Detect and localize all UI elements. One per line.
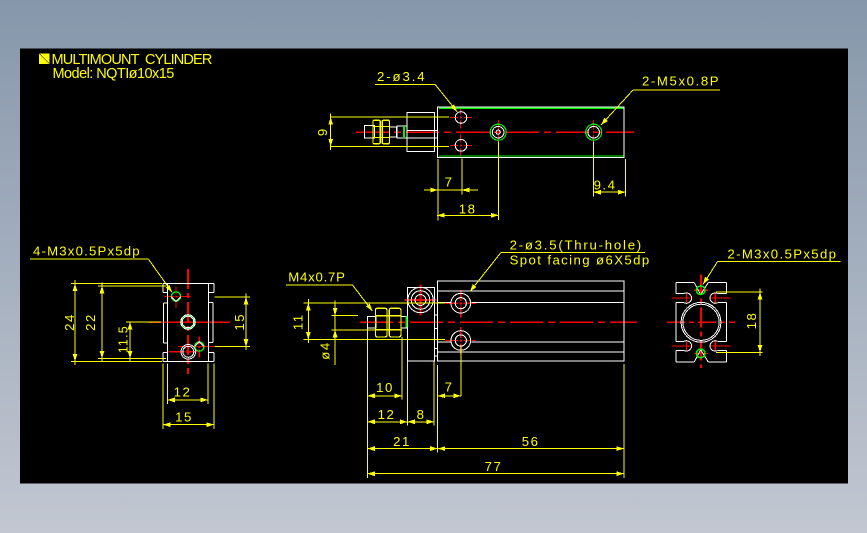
svg-text:11.5: 11.5	[117, 325, 131, 353]
svg-text:M4x0.7P: M4x0.7P	[288, 269, 345, 284]
svg-text:8: 8	[417, 407, 426, 422]
svg-text:12: 12	[174, 385, 192, 400]
svg-text:11: 11	[291, 313, 306, 330]
svg-text:22: 22	[83, 313, 98, 331]
svg-text:18: 18	[744, 312, 759, 330]
svg-text:77: 77	[485, 459, 503, 474]
svg-text:ø4: ø4	[317, 341, 332, 359]
svg-text:15: 15	[232, 313, 247, 331]
svg-text:24: 24	[62, 313, 77, 331]
svg-text:18: 18	[459, 201, 477, 216]
svg-text:7: 7	[445, 175, 454, 190]
svg-text:15: 15	[175, 410, 193, 425]
svg-text:2-M3x0.5Px5dp: 2-M3x0.5Px5dp	[727, 247, 836, 262]
svg-text:9.4: 9.4	[594, 178, 617, 193]
svg-text:4-M3x0.5Px5dp: 4-M3x0.5Px5dp	[33, 244, 140, 259]
svg-text:12: 12	[378, 407, 396, 422]
svg-text:21: 21	[393, 434, 411, 449]
svg-text:2-M5x0.8P: 2-M5x0.8P	[642, 74, 719, 89]
svg-text:7: 7	[445, 380, 454, 395]
svg-text:9: 9	[315, 127, 330, 136]
svg-text:Spot facing ø6X5dp: Spot facing ø6X5dp	[510, 253, 650, 268]
svg-text:Model: NQTIø10x15: Model: NQTIø10x15	[53, 66, 175, 82]
svg-text:10: 10	[376, 380, 394, 395]
svg-text:56: 56	[522, 434, 540, 449]
